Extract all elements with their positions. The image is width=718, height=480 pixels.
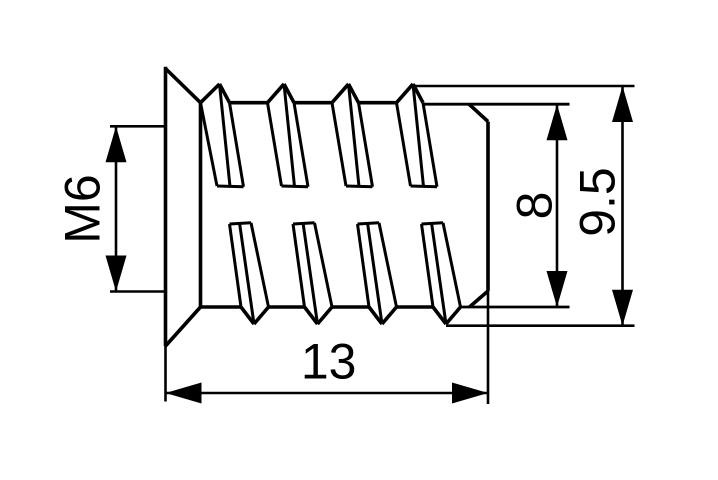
bottom root line segment 0 (flange to tooth 1)	[201, 305, 242, 309]
bottom thread tooth 2 crest left edge	[305, 307, 318, 324]
bottom thread tooth 3 flank line c	[379, 223, 397, 307]
bottom thread tooth 3 flank line b	[368, 223, 383, 324]
bottom thread tooth 4 crest right edge	[446, 307, 461, 324]
top thread tooth 2 flank line b	[284, 84, 295, 187]
flange bottom bevel	[166, 307, 201, 346]
dim M6 top extension line	[110, 125, 166, 128]
dim M6 top arrowhead	[106, 126, 127, 162]
bottom root line segment 1	[269, 305, 305, 309]
bottom thread tooth 3 flank line a	[358, 224, 370, 307]
bottom thread tooth 3 crest right edge	[382, 307, 397, 324]
top thread tooth 1 crest left edge	[201, 84, 220, 103]
dim 9.5 top arrowhead	[612, 86, 633, 122]
dim 13 right arrowhead	[452, 383, 488, 404]
bottom thread tooth 1 flank line c	[251, 223, 269, 307]
dim 13 dimension line	[166, 392, 489, 395]
top thread tooth 3 flank line b	[349, 84, 360, 187]
dim M6 dimension line	[115, 126, 118, 291]
svg-text:8: 8	[507, 192, 563, 220]
top thread tooth 1 flank line b	[220, 84, 231, 187]
svg-text:9.5: 9.5	[570, 167, 626, 237]
bottom thread tooth 4 flank line a	[422, 224, 434, 307]
bottom thread tooth 4 crest left edge	[433, 307, 446, 324]
dim 9.5 top extension line	[413, 85, 635, 88]
bottom thread tooth 1 crest right edge	[254, 307, 269, 324]
bottom thread tooth 2 flank line a	[293, 224, 305, 307]
flange right face	[199, 103, 203, 307]
top thread tooth 1 bottom tick	[217, 185, 244, 189]
top thread tooth 4 crest right edge	[413, 84, 423, 103]
top root line segment 4 + dim-8 top extension line	[423, 103, 570, 106]
bottom thread tooth 2 flank line c	[315, 223, 333, 307]
dim 8 dimension line	[556, 104, 559, 307]
top thread tooth 4 flank line b	[413, 84, 424, 187]
top thread tooth 3 flank line a	[332, 103, 346, 186]
top thread tooth 3 flank line c	[359, 103, 373, 187]
dim 9.5 bottom arrowhead	[612, 290, 633, 326]
top thread tooth 4 bottom tick	[411, 185, 438, 189]
top thread tooth 1 flank line c	[230, 103, 244, 187]
bottom thread tooth 1 crest left edge	[241, 307, 254, 324]
top thread tooth 4 flank line a	[397, 103, 411, 186]
bottom thread tooth 4 flank line c	[443, 223, 461, 307]
bottom thread tooth 1 top tick	[230, 223, 252, 224]
bottom root line segment 4 + dim-8 bottom extension line	[461, 306, 570, 309]
top root line segment 1	[230, 101, 268, 105]
bottom thread tooth 1 flank line b	[240, 223, 255, 324]
dim 9.5 bottom extension line	[446, 324, 635, 327]
bottom thread tooth 2 crest right edge	[318, 307, 333, 324]
right end top chamfer	[469, 104, 488, 121]
flange top bevel	[166, 69, 201, 103]
top thread tooth 2 crest left edge	[268, 84, 285, 103]
right end face	[486, 122, 490, 292]
bottom thread tooth 4 flank line b	[432, 223, 447, 324]
dim 13 right extension line (end face extended)	[487, 291, 490, 404]
flange left face	[164, 67, 168, 346]
dim M6 bottom extension line	[110, 290, 166, 293]
bottom thread tooth 4 top tick	[422, 223, 444, 224]
top thread tooth 2 flank line c	[294, 103, 308, 187]
svg-text:13: 13	[301, 334, 357, 390]
top thread tooth 2 flank line a	[268, 103, 282, 186]
dim 13 left extension line (flange face extended)	[164, 346, 167, 402]
top thread tooth 3 crest right edge	[349, 84, 359, 103]
top root line segment 2	[294, 101, 332, 105]
dim 9.5 dimension line	[621, 86, 624, 326]
bottom thread tooth 3 crest left edge	[369, 307, 382, 324]
bottom thread tooth 2 flank line b	[303, 223, 318, 324]
top root line segment 3	[359, 101, 397, 105]
top thread tooth 1 crest right edge	[220, 84, 230, 103]
bottom root line segment 2	[332, 305, 369, 309]
top thread tooth 2 crest right edge	[284, 84, 294, 103]
dim 8 top arrowhead	[547, 104, 568, 140]
top thread tooth 2 bottom tick	[282, 185, 309, 189]
top thread tooth 3 crest left edge	[332, 84, 349, 103]
top thread tooth 4 flank line c	[423, 103, 437, 187]
dim 13 left arrowhead	[166, 383, 202, 404]
bottom thread tooth 1 flank line a	[230, 224, 242, 307]
right end bottom chamfer	[470, 291, 489, 307]
bottom root line segment 3	[397, 305, 434, 309]
bottom thread tooth 3 top tick	[358, 223, 380, 224]
svg-text:M6: M6	[54, 174, 110, 243]
dim M6 bottom arrowhead	[106, 256, 127, 292]
bottom thread tooth 2 top tick	[293, 223, 315, 224]
top thread tooth 4 crest left edge	[397, 84, 414, 103]
top thread tooth 1 flank line a	[201, 103, 218, 186]
top thread tooth 3 bottom tick	[346, 185, 373, 189]
dim 8 bottom arrowhead	[547, 271, 568, 307]
